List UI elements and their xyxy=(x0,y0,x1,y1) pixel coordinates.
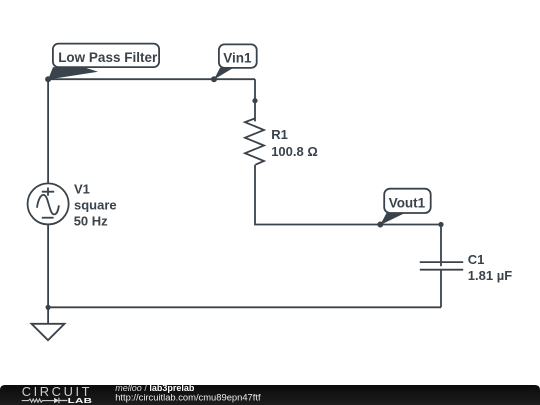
wire V1 top lead xyxy=(47,79,49,183)
svg-text:LAB: LAB xyxy=(68,397,93,405)
CircuitLab logo: resistor zigzag xyxy=(22,399,54,402)
wire C1 bottom lead to ground net xyxy=(440,270,442,308)
svg-text:Vin1: Vin1 xyxy=(223,51,252,66)
wire R1 column drop xyxy=(254,79,256,101)
svg-text:square: square xyxy=(74,197,117,212)
svg-text:50 Hz: 50 Hz xyxy=(74,214,108,229)
flag node Vout1 xyxy=(380,189,430,225)
wire V1 bottom lead xyxy=(47,224,49,307)
CircuitLab logo: diode xyxy=(54,398,67,404)
flag Low Pass Filter xyxy=(48,44,159,80)
svg-text:Vout1: Vout1 xyxy=(389,195,426,210)
svg-text:1.81 µF: 1.81 µF xyxy=(468,268,512,283)
wire bottom ground net xyxy=(48,306,441,308)
svg-text:http://circuitlab.com/cmu89epn: http://circuitlab.com/cmu89epn47ftf xyxy=(115,391,261,402)
ground symbol xyxy=(32,307,65,340)
junction dot at C1 column corner xyxy=(438,222,443,227)
resistor R1 xyxy=(245,101,264,165)
capacitor C1 xyxy=(420,225,463,270)
voltage source V1 xyxy=(28,183,69,224)
flag node Vin1 xyxy=(214,44,257,79)
node dot Low Pass Filter flag xyxy=(45,76,51,82)
node dot Vin1 xyxy=(211,76,217,82)
svg-text:R1: R1 xyxy=(271,127,288,142)
svg-text:Low Pass Filter: Low Pass Filter xyxy=(58,50,158,65)
svg-text:V1: V1 xyxy=(74,182,90,197)
svg-text:C1: C1 xyxy=(468,252,485,267)
wire top net (node Vin1) from V1 to R1 column xyxy=(48,78,255,80)
svg-text:100.8 Ω: 100.8 Ω xyxy=(271,144,318,159)
junction dot at R1 top terminal xyxy=(252,98,257,103)
footer bar xyxy=(0,385,540,405)
junction dot at ground net left xyxy=(46,305,51,310)
wire mid net (node Vout1) R1 bottom to C1 column xyxy=(255,165,441,225)
node dot Vout1 xyxy=(377,222,383,228)
